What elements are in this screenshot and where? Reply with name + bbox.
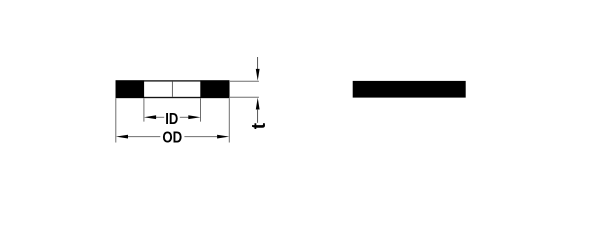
thickness extension line bottom: [230, 96, 259, 98]
thickness dimension line lower segment: [257, 109, 259, 123]
ID left arrowhead: [144, 115, 156, 119]
washer cross-section left black segment: [116, 80, 144, 98]
washer side view bar: [353, 81, 466, 98]
OD dimension line right segment: [184, 136, 217, 138]
thickness upper arrowhead pointing down: [256, 69, 260, 81]
OD dimension line left segment: [128, 136, 160, 138]
ID extension line left: [143, 98, 145, 121]
ID dimension line right segment: [180, 116, 189, 118]
thickness extension line top: [230, 80, 259, 82]
washer bore centerline: [171, 82, 173, 97]
washer cross-section outline: [116, 81, 229, 98]
OD right arrowhead: [217, 135, 229, 139]
svg-text:OD: OD: [162, 130, 182, 147]
washer cross-section right black segment: [200, 80, 229, 98]
OD left arrowhead: [116, 135, 128, 139]
svg-text:t: t: [249, 122, 270, 129]
ID dimension line left segment: [156, 116, 165, 118]
thickness dimension line upper segment: [257, 57, 259, 70]
thickness lower arrowhead pointing up: [256, 98, 260, 110]
OD extension line left: [115, 98, 117, 142]
ID right arrowhead: [188, 115, 200, 119]
svg-text:ID: ID: [165, 111, 178, 128]
ID extension line right: [200, 98, 202, 121]
OD extension line right: [228, 98, 230, 142]
